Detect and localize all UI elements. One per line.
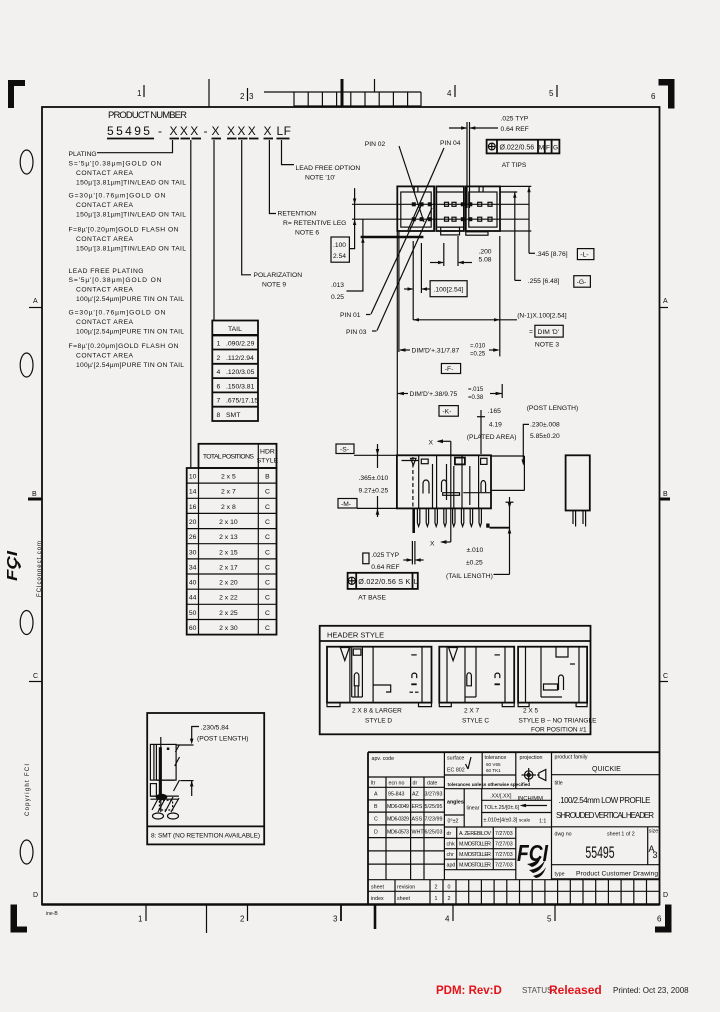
side view polarization rib dashed xyxy=(411,457,416,508)
svg-text:A. ZEREBILOV: A. ZEREBILOV xyxy=(459,831,491,837)
svg-text:(POST LENGTH): (POST LENGTH) xyxy=(527,405,579,412)
svg-text:7/27/03: 7/27/03 xyxy=(495,842,513,848)
svg-text:6: 6 xyxy=(217,383,221,390)
svg-text:2: 2 xyxy=(240,92,245,101)
svg-text:X: X xyxy=(430,541,435,548)
header style section box xyxy=(320,626,591,735)
svg-text:55495: 55495 xyxy=(107,124,152,138)
side view body outline xyxy=(397,455,491,508)
svg-text:.230±.008: .230±.008 xyxy=(530,422,560,429)
svg-text:linear: linear xyxy=(467,806,480,812)
svg-text:C: C xyxy=(265,595,270,602)
svg-text:-K-: -K- xyxy=(442,409,451,416)
svg-text:TOTAL POSITIONS: TOTAL POSITIONS xyxy=(203,454,254,461)
lead free option note xyxy=(296,165,361,182)
svg-text:0°±2: 0°±2 xyxy=(448,819,459,825)
svg-text:type: type xyxy=(555,872,565,878)
svg-text:HDR: HDR xyxy=(260,449,275,456)
svg-text:-M-: -M- xyxy=(341,501,351,508)
svg-text:sheet: sheet xyxy=(371,885,384,891)
svg-text:2 x 13: 2 x 13 xyxy=(219,534,238,541)
svg-text:PDM: Rev:D: PDM: Rev:D xyxy=(436,985,502,997)
svg-text:sheet 1 of 2: sheet 1 of 2 xyxy=(607,832,635,838)
product number underlines xyxy=(107,138,290,140)
side view contact hooks xyxy=(423,480,486,494)
svg-text:1:1: 1:1 xyxy=(539,819,546,825)
svg-text:ecn no: ecn no xyxy=(389,781,405,787)
svg-text:C: C xyxy=(33,673,38,680)
svg-text:4: 4 xyxy=(447,89,452,98)
svg-text:PLATING: PLATING xyxy=(69,151,97,158)
pin 02 leader xyxy=(399,146,424,222)
svg-text:.345 [8.76]: .345 [8.76] xyxy=(536,251,568,258)
svg-text:M. MOSTOLLER: M. MOSTOLLER xyxy=(459,852,491,858)
section arrow X bottom xyxy=(430,540,451,547)
pin 01 leader xyxy=(371,206,421,314)
scale bar thick mark xyxy=(341,79,344,106)
svg-text:PIN 04: PIN 04 xyxy=(440,140,461,147)
svg-text:XXX: XXX xyxy=(227,124,258,138)
svg-text:=: = xyxy=(529,329,533,336)
svg-text:.675/17.15: .675/17.15 xyxy=(226,398,258,405)
svg-text:AT BASE: AT BASE xyxy=(358,595,386,602)
svg-text:40: 40 xyxy=(189,580,197,587)
svg-text:AZ: AZ xyxy=(412,792,420,798)
svg-text:2 X 7: 2 X 7 xyxy=(464,708,480,715)
svg-text:G=30µ'[0.76µm]GOLD ON: G=30µ'[0.76µm]GOLD ON xyxy=(69,193,166,200)
svg-text:tolerances unless otherwise sp: tolerances unless otherwise specified xyxy=(448,782,531,787)
left zone letter C xyxy=(29,673,42,682)
dimension .200 5.08 xyxy=(430,236,492,266)
title block outline xyxy=(368,752,660,904)
svg-text:2 x 7: 2 x 7 xyxy=(221,489,236,496)
svg-text:2 x 25: 2 x 25 xyxy=(219,610,238,617)
svg-text:PIN 02: PIN 02 xyxy=(365,141,386,148)
bottom border zone number 2 xyxy=(240,905,248,924)
svg-text:±0.25: ±0.25 xyxy=(466,560,483,567)
FCI logo in title block xyxy=(517,840,548,878)
dimension .365 +-.010 9.27+-0.25 xyxy=(359,444,389,517)
svg-text:FCIconnect.com: FCIconnect.com xyxy=(37,541,43,597)
dimension .255 [6.48] -G- xyxy=(513,192,590,287)
svg-text:NOTE 3: NOTE 3 xyxy=(535,342,559,349)
right zone letter A xyxy=(660,298,669,308)
title cell xyxy=(555,781,655,821)
svg-text:=0.25: =0.25 xyxy=(470,352,486,358)
svg-text:1: 1 xyxy=(217,341,221,348)
approval row dr xyxy=(447,831,513,837)
svg-text:Printed: Oct 23, 2008: Printed: Oct 23, 2008 xyxy=(613,986,689,995)
svg-text:R= RETENTIVE LEG: R= RETENTIVE LEG xyxy=(283,220,346,227)
svg-text:F: F xyxy=(546,145,550,152)
dimension DIM D +.31/7.87 -F- xyxy=(399,344,500,374)
svg-text:=.015: =.015 xyxy=(468,387,484,393)
svg-text:projection: projection xyxy=(520,755,543,761)
svg-text:LEAD FREE PLATING: LEAD FREE PLATING xyxy=(69,268,144,275)
svg-text:1: 1 xyxy=(137,89,142,98)
svg-text:2 x 8: 2 x 8 xyxy=(221,504,236,511)
svg-text:CONTACT AREA: CONTACT AREA xyxy=(76,319,134,326)
svg-text:S='5µ'[0.38µm]GOLD ON: S='5µ'[0.38µm]GOLD ON xyxy=(69,277,162,284)
dimension .345 [8.76] -L- xyxy=(527,186,594,259)
punch hole oval 4 xyxy=(20,840,33,864)
right side extension lines of top view xyxy=(500,186,531,231)
svg-text:G=30µ'[0.76µm]GOLD ON: G=30µ'[0.76µm]GOLD ON xyxy=(69,310,166,317)
tail table xyxy=(212,321,258,422)
svg-text:D: D xyxy=(663,892,668,899)
top view pins row 2 xyxy=(412,217,492,221)
svg-text:SMT: SMT xyxy=(226,412,240,419)
datum -M- box xyxy=(338,499,357,509)
svg-text:6: 6 xyxy=(657,915,662,924)
svg-text:ASS: ASS xyxy=(412,817,423,823)
product family cell xyxy=(555,755,622,774)
svg-text:M: M xyxy=(539,145,544,152)
right zone letter C xyxy=(660,673,669,682)
svg-text:C: C xyxy=(265,580,270,587)
svg-text:B: B xyxy=(663,491,668,498)
svg-text:sheet: sheet xyxy=(397,896,410,902)
svg-text:14: 14 xyxy=(189,489,197,496)
bottom fold mark xyxy=(374,905,377,929)
svg-text:7: 7 xyxy=(217,398,221,405)
svg-text:revision: revision xyxy=(397,885,415,891)
svg-text:2 X 8 & LARGER: 2 X 8 & LARGER xyxy=(352,708,402,715)
svg-text:.150/3.81: .150/3.81 xyxy=(226,383,255,390)
right zone letter B xyxy=(660,491,671,499)
svg-text:C: C xyxy=(265,504,270,511)
leader X8 to retention note xyxy=(269,140,276,214)
svg-text:QUICKIE: QUICKIE xyxy=(592,766,621,773)
svg-text:10: 10 xyxy=(189,474,197,481)
svg-text:.120/3.05: .120/3.05 xyxy=(226,369,255,376)
polarization note xyxy=(254,272,303,289)
svg-text:50: 50 xyxy=(189,610,197,617)
angles cell xyxy=(447,800,464,825)
svg-text:chk: chk xyxy=(447,842,456,848)
bottom border zone number 4 xyxy=(445,905,453,924)
dimension (N-1)X.100[2.54] = DIM D NOTE 3 xyxy=(413,236,567,356)
vertical FCI logo left margin xyxy=(4,550,21,581)
svg-text:2.54: 2.54 xyxy=(333,253,346,260)
smt post cross-section drawing xyxy=(150,737,179,819)
svg-text:(PLATED AREA): (PLATED AREA) xyxy=(467,434,517,441)
svg-text:1: 1 xyxy=(435,896,438,902)
svg-text:M. MOSTOLLER: M. MOSTOLLER xyxy=(459,863,491,869)
svg-text:STYLE B – NO TRIANGLE: STYLE B – NO TRIANGLE xyxy=(519,718,598,725)
svg-text:RETENTION: RETENTION xyxy=(278,211,317,218)
pin 01 label xyxy=(340,312,371,319)
svg-text:5: 5 xyxy=(549,89,554,98)
svg-text:3: 3 xyxy=(249,92,254,101)
svg-text:C: C xyxy=(265,610,270,617)
svg-text:C: C xyxy=(265,564,270,571)
svg-text:-F-: -F- xyxy=(445,366,454,373)
svg-text:-G-: -G- xyxy=(577,279,587,286)
svg-text:5.85±0.20: 5.85±0.20 xyxy=(530,433,560,440)
tolerance cell xyxy=(485,755,507,773)
revision row B xyxy=(374,804,443,810)
svg-text:DIM'D'+.38/9.75: DIM'D'+.38/9.75 xyxy=(410,391,458,398)
left zone letter A xyxy=(29,298,42,308)
side view contact line to right xyxy=(463,492,491,494)
vertical FCIconnect.com text xyxy=(37,541,43,597)
header style B drawing xyxy=(518,647,597,734)
sheet index rows xyxy=(371,885,451,903)
svg-text:NOTE '10': NOTE '10' xyxy=(305,175,335,182)
punch hole oval 2 xyxy=(20,353,33,377)
svg-text:1: 1 xyxy=(138,915,143,924)
svg-text:MD6-0573: MD6-0573 xyxy=(387,830,409,836)
svg-text:LEAD FREE OPTION: LEAD FREE OPTION xyxy=(296,165,361,172)
svg-text:apv. code: apv. code xyxy=(372,756,395,762)
svg-text:7/27/03: 7/27/03 xyxy=(495,831,513,837)
svg-text:STYLE: STYLE xyxy=(257,458,279,465)
svg-text:AT TIPS: AT TIPS xyxy=(502,162,527,169)
feature control frame at tips xyxy=(487,140,560,154)
revision row D xyxy=(374,830,443,836)
svg-text:B: B xyxy=(32,491,37,498)
extension lines from top view to side view xyxy=(397,231,399,455)
bottom border zone number 1 xyxy=(138,905,146,924)
svg-text:3: 3 xyxy=(333,915,338,924)
revision table header xyxy=(371,756,437,787)
svg-text:HEADER STYLE: HEADER STYLE xyxy=(327,631,384,640)
approval row chk xyxy=(447,842,513,848)
svg-text:G: G xyxy=(553,145,558,152)
approval row chr xyxy=(447,852,513,858)
pin tip reference line xyxy=(490,527,510,529)
svg-text:9.27±0.25: 9.27±0.25 xyxy=(359,488,389,495)
top view polarization tab xyxy=(441,227,460,235)
svg-text:FOR POSITION #1: FOR POSITION #1 xyxy=(531,727,587,734)
svg-text:A: A xyxy=(33,298,38,305)
svg-text:2 x 30: 2 x 30 xyxy=(219,625,238,632)
svg-text:100µ'[2.54µm]PURE TIN ON TAIL: 100µ'[2.54µm]PURE TIN ON TAIL xyxy=(76,362,184,369)
smt small dot xyxy=(167,748,170,751)
svg-text:CONTACT AREA: CONTACT AREA xyxy=(76,202,134,209)
svg-text:100µ'[2.54µm]PURE TIN ON TAIL: 100µ'[2.54µm]PURE TIN ON TAIL xyxy=(76,329,184,336)
svg-text:MD6-0049: MD6-0049 xyxy=(387,804,409,810)
svg-text:7/23/99: 7/23/99 xyxy=(425,817,443,823)
top view connector outline segment 2 xyxy=(436,186,464,231)
pin 03 leader xyxy=(377,208,432,331)
top view pin row 2 centerline xyxy=(352,218,529,220)
svg-text:ERS: ERS xyxy=(412,804,423,810)
svg-text:C: C xyxy=(265,519,270,526)
svg-text:(POST LENGTH): (POST LENGTH) xyxy=(197,736,249,743)
approval row apd xyxy=(447,863,513,869)
title block grid xyxy=(368,752,660,891)
feature control frame at base xyxy=(348,573,418,589)
svg-text:5: 5 xyxy=(547,915,552,924)
svg-text:26: 26 xyxy=(189,534,197,541)
side view top surface extension xyxy=(354,454,397,456)
svg-text:7/27/03: 7/27/03 xyxy=(495,852,513,858)
svg-text:TOL±.25/[0±.6]: TOL±.25/[0±.6] xyxy=(484,805,520,811)
svg-text:30: 30 xyxy=(189,549,197,556)
svg-text:0.64 REF: 0.64 REF xyxy=(501,126,529,133)
corner crop mark bottom-right xyxy=(655,905,672,933)
top view bottom flange bar xyxy=(361,236,424,239)
bottom fold mark 2 xyxy=(206,905,208,933)
svg-text:date: date xyxy=(427,781,437,787)
side view internal walls xyxy=(402,455,479,508)
bottom border zone number 5 xyxy=(547,905,555,924)
svg-text:8: SMT (NO RETENTION AVAILAB: 8: SMT (NO RETENTION AVAILABLE) xyxy=(151,833,260,840)
dimension .013 0.25 xyxy=(331,219,365,301)
left pin offset box .100 2.54 xyxy=(331,188,356,262)
svg-text:F=8µ'[0.20µm]GOLD FLASH ON: F=8µ'[0.20µm]GOLD FLASH ON xyxy=(69,227,179,234)
svg-text:.XX/[.XX]: .XX/[.XX] xyxy=(490,794,512,800)
svg-text:angles: angles xyxy=(447,800,464,806)
svg-text:150µ'[3.81µm]TIN/LEAD ON TAIL: 150µ'[3.81µm]TIN/LEAD ON TAIL xyxy=(76,180,186,187)
svg-text:C: C xyxy=(374,817,378,823)
dimension .025 TYP 0.64 REF at tips xyxy=(501,116,529,134)
product number code 55495-XXX-XXXX X LF xyxy=(107,124,292,138)
svg-text:55495: 55495 xyxy=(585,842,614,861)
revision row C xyxy=(374,817,443,823)
svg-text:apd: apd xyxy=(447,863,456,869)
svg-text:C: C xyxy=(265,625,270,632)
svg-text:.255 [6.48]: .255 [6.48] xyxy=(528,278,560,285)
svg-text:dwg no: dwg no xyxy=(555,832,572,838)
drawing frame border xyxy=(42,107,660,905)
svg-text:2: 2 xyxy=(448,896,451,902)
side view seating plane extension xyxy=(357,507,397,509)
smt post length dimension label xyxy=(176,725,248,797)
svg-text:scale: scale xyxy=(519,818,531,824)
svg-text:-L-: -L- xyxy=(580,252,588,259)
svg-text:product family: product family xyxy=(555,755,588,761)
svg-text:SHROUDED VERTICAL HEADER: SHROUDED VERTICAL HEADER xyxy=(556,811,654,820)
svg-text:2 x 17: 2 x 17 xyxy=(219,564,238,571)
section arrow X top xyxy=(429,439,451,446)
svg-text:=0.38: =0.38 xyxy=(468,395,484,401)
svg-text:.200: .200 xyxy=(479,249,492,256)
punch hole oval 1 xyxy=(20,150,33,174)
bottom border zone number 3 xyxy=(333,905,341,924)
side view plated area step xyxy=(491,456,524,490)
svg-text:.165: .165 xyxy=(488,408,501,415)
svg-text:-: - xyxy=(204,124,210,138)
svg-text:NOTE 6: NOTE 6 xyxy=(295,230,319,237)
leader X1 to plating xyxy=(97,140,173,153)
svg-text:0.64 REF: 0.64 REF xyxy=(371,564,399,571)
inch/mm cell xyxy=(518,796,548,807)
svg-text:(N-1)X.100[2.54]: (N-1)X.100[2.54] xyxy=(517,313,567,320)
header style D drawing xyxy=(327,647,432,725)
svg-text:2: 2 xyxy=(240,915,245,924)
svg-text:EC 802: EC 802 xyxy=(447,768,465,774)
svg-text:PRODUCT NUMBER: PRODUCT NUMBER xyxy=(108,110,187,121)
svg-text:4: 4 xyxy=(445,915,450,924)
svg-text:150µ'[3.81µm]TIN/LEAD ON TAIL: 150µ'[3.81µm]TIN/LEAD ON TAIL xyxy=(76,246,186,253)
svg-text:6: 6 xyxy=(651,92,656,101)
svg-text:95-843: 95-843 xyxy=(388,792,405,798)
svg-text:ltr: ltr xyxy=(371,781,376,787)
svg-text:4: 4 xyxy=(217,369,221,376)
svg-text:60 V65: 60 V65 xyxy=(486,762,501,767)
svg-text:.112/2.94: .112/2.94 xyxy=(226,355,254,362)
header style C drawing xyxy=(439,647,514,725)
svg-text:Product Customer Drawing: Product Customer Drawing xyxy=(576,871,658,878)
svg-text:8: 8 xyxy=(217,412,221,419)
smt solder joint blob xyxy=(156,794,168,800)
left zone letter B xyxy=(28,491,42,499)
svg-text:INCH/MM: INCH/MM xyxy=(518,796,544,802)
svg-text:2 x 15: 2 x 15 xyxy=(219,549,238,556)
svg-text:±.010: ±.010 xyxy=(467,547,484,554)
svg-text:C: C xyxy=(663,673,668,680)
plating notes block xyxy=(69,151,187,369)
section cut line X-X xyxy=(450,441,452,542)
corner crop mark bottom-left xyxy=(11,905,28,933)
corner crop mark top-left xyxy=(8,80,25,108)
svg-text:=.010: =.010 xyxy=(470,344,486,350)
svg-text:DIM 'D': DIM 'D' xyxy=(538,329,560,336)
svg-text:A: A xyxy=(374,792,378,798)
vertical Copyright FCI text xyxy=(25,764,31,816)
top border zone number 1 xyxy=(137,85,144,98)
svg-text:B: B xyxy=(265,474,270,481)
leader X3 to positions table xyxy=(190,140,192,468)
svg-text:±.010±[4/±0.3]: ±.010±[4/±0.3] xyxy=(484,818,518,824)
tail length dimension line xyxy=(506,497,514,574)
svg-text:TAIL: TAIL xyxy=(228,326,242,333)
svg-text:PIN 01: PIN 01 xyxy=(340,312,361,319)
svg-text:tolerance: tolerance xyxy=(485,755,507,761)
svg-text:F=8µ'[0.20µm]GOLD FLASH ON: F=8µ'[0.20µm]GOLD FLASH ON xyxy=(69,343,179,350)
svg-text:0.25: 0.25 xyxy=(331,294,344,301)
svg-text:16: 16 xyxy=(189,504,197,511)
projection cell xyxy=(520,755,546,782)
svg-text:D: D xyxy=(33,892,38,899)
svg-text:2 x 10: 2 x 10 xyxy=(219,519,238,526)
svg-text:CONTACT AREA: CONTACT AREA xyxy=(76,170,134,177)
svg-text:3/27/93: 3/27/93 xyxy=(425,792,443,798)
svg-text:Copyright FCI: Copyright FCI xyxy=(25,764,31,816)
dimension .165 4.19 plated area xyxy=(467,408,517,454)
dimension DIM D +.38/9.75 -K- xyxy=(397,384,502,416)
pin 04 leader xyxy=(408,148,444,230)
svg-text:X: X xyxy=(212,124,222,138)
svg-text:3: 3 xyxy=(653,850,658,860)
datum -S- box xyxy=(336,444,354,454)
svg-text:NOTE 9: NOTE 9 xyxy=(262,282,286,289)
svg-text:4.19: 4.19 xyxy=(489,422,502,429)
svg-text:6/25/03: 6/25/03 xyxy=(425,830,443,836)
top reference scale bar xyxy=(264,92,421,106)
svg-text:-S-: -S- xyxy=(340,447,349,454)
svg-text:2 x 5: 2 x 5 xyxy=(221,474,236,481)
side view pins xyxy=(417,508,481,526)
svg-text:2 x 22: 2 x 22 xyxy=(219,595,238,602)
svg-text:CONTACT AREA: CONTACT AREA xyxy=(76,353,134,360)
dimension +-.010 +-0.25 tail length xyxy=(446,547,510,580)
svg-text:C: C xyxy=(265,549,270,556)
svg-text:B: B xyxy=(374,804,378,810)
svg-text:.090/2.29: .090/2.29 xyxy=(226,341,255,348)
svg-text:(TAIL LENGTH): (TAIL LENGTH) xyxy=(446,573,493,580)
tolerance values xyxy=(484,794,547,825)
svg-text:5/25/95: 5/25/95 xyxy=(425,804,443,810)
svg-text:title: title xyxy=(555,781,563,787)
dimension .025 TYP 0.64 REF at base xyxy=(363,541,424,571)
svg-text:150µ'[3.81µm]TIN/LEAD ON TAIL: 150µ'[3.81µm]TIN/LEAD ON TAIL xyxy=(76,212,186,219)
svg-text:C: C xyxy=(265,534,270,541)
side view sectioned pin solid xyxy=(412,508,415,533)
